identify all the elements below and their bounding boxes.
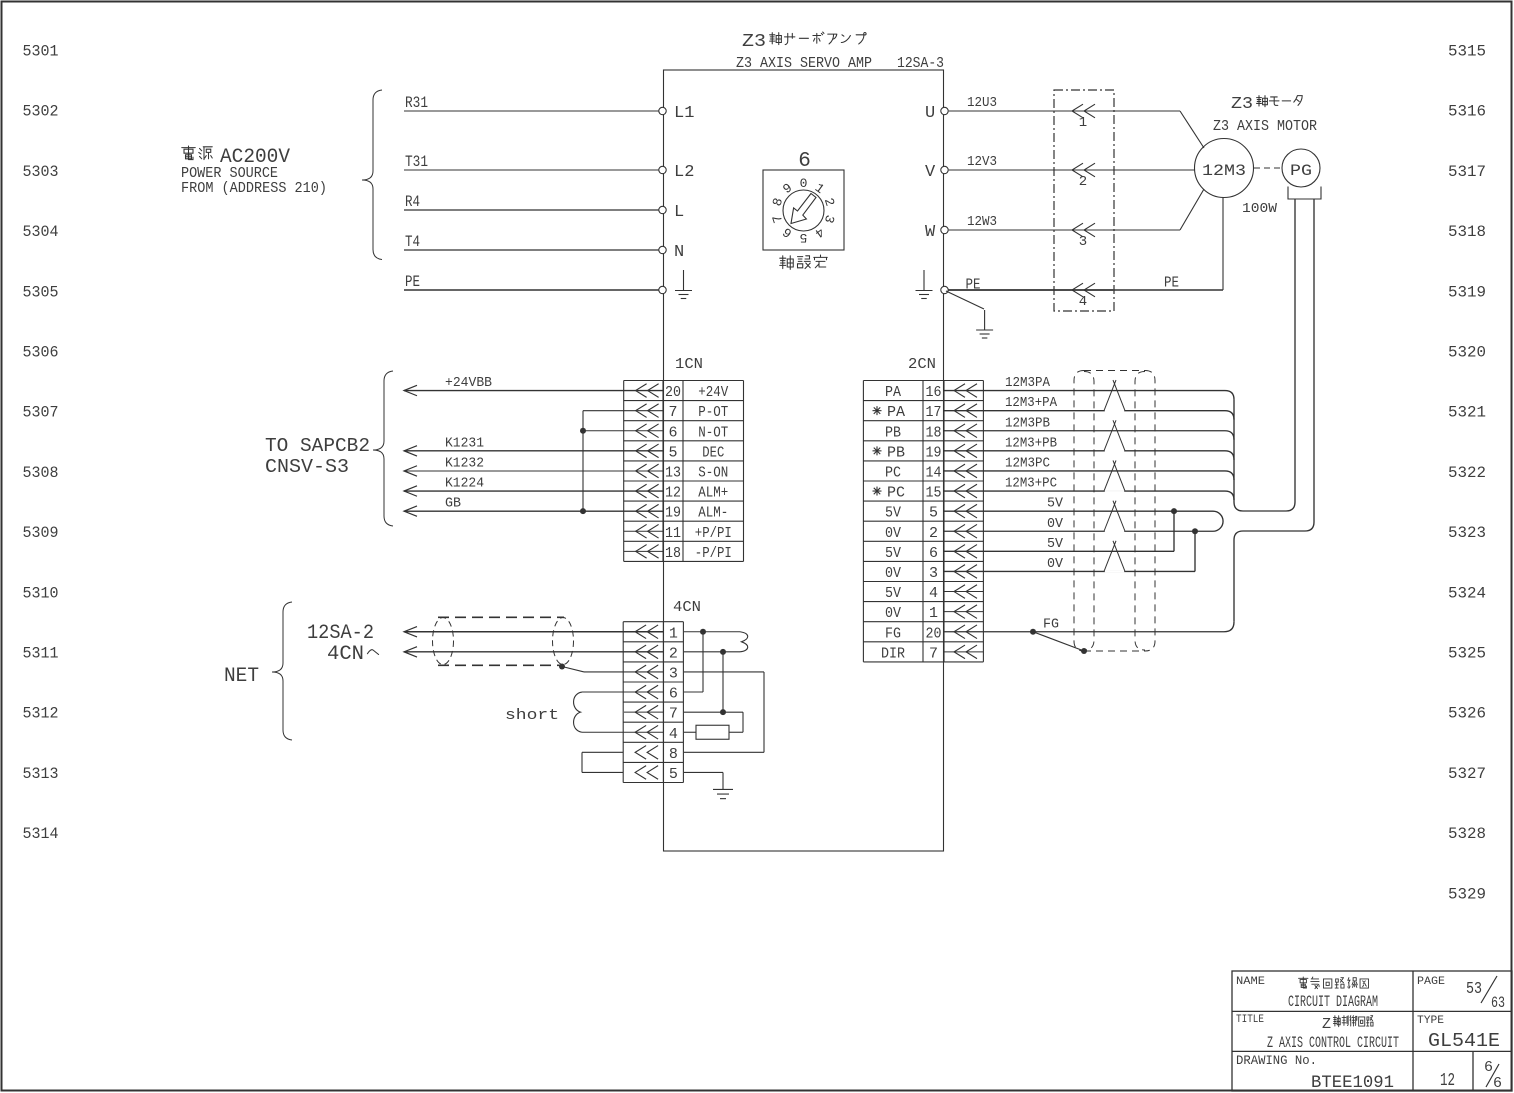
svg-text:2: 2	[929, 525, 938, 542]
svg-text:L: L	[674, 203, 684, 222]
svg-text:FG: FG	[885, 625, 901, 642]
svg-text:19: 19	[665, 505, 681, 522]
junction dot shield	[1081, 648, 1087, 654]
svg-text:6: 6	[668, 424, 677, 441]
svg-text:5309: 5309	[23, 524, 59, 542]
svg-text:5V: 5V	[1047, 496, 1064, 512]
wire GB	[404, 510, 663, 512]
svg-text:5317: 5317	[1448, 163, 1486, 181]
2CN pin 6 5V arrows	[954, 545, 965, 559]
wire K1231	[404, 450, 663, 452]
svg-text:L2: L2	[674, 163, 694, 182]
svg-text:5316: 5316	[1448, 103, 1486, 121]
tie pin1-pin6	[702, 632, 704, 692]
1CN pin 13 S-ON arrows	[636, 464, 647, 478]
svg-text:5: 5	[800, 230, 808, 245]
svg-text:5325: 5325	[1448, 645, 1486, 663]
svg-text:6: 6	[929, 545, 938, 562]
wire 5V pin5	[944, 510, 1213, 512]
2CN pin 2 0V arrows	[954, 524, 965, 538]
svg-text:W: W	[925, 223, 936, 242]
svg-text:12U3: 12U3	[967, 95, 997, 111]
svg-text:20: 20	[926, 625, 942, 642]
wire pin6	[684, 691, 703, 693]
terminal R31 on amp	[659, 107, 666, 114]
svg-text:short: short	[505, 707, 559, 724]
rotary switch S1 axis-setting dial	[763, 170, 844, 250]
servo amp 12SA-3 outline	[664, 70, 944, 851]
NET cable shield	[438, 616, 564, 618]
svg-text:14: 14	[926, 464, 942, 481]
svg-text:5302: 5302	[23, 103, 59, 121]
svg-text:5326: 5326	[1448, 705, 1486, 723]
svg-text:Z3 AXIS SERVO AMP: Z3 AXIS SERVO AMP	[736, 55, 872, 72]
terminal T4 on amp	[659, 246, 666, 253]
2CN pin 17 *PA arrows	[954, 404, 965, 418]
svg-text:5319: 5319	[1448, 283, 1486, 301]
2CN pin 5 5V arrows	[954, 504, 965, 518]
wire pin5 to ground	[684, 771, 723, 773]
svg-text:PB: PB	[885, 424, 901, 441]
svg-text:TYPE: TYPE	[1417, 1015, 1444, 1027]
4CN pin 1 arrows	[635, 625, 646, 639]
power source label 電源 AC200V	[182, 146, 196, 160]
svg-text:R4: R4	[405, 193, 420, 211]
svg-text:5310: 5310	[23, 584, 59, 602]
connector pin 3 arrows	[1072, 223, 1083, 237]
ground 4CN pin5	[713, 788, 733, 790]
svg-text:1: 1	[929, 605, 938, 622]
svg-text:1CN: 1CN	[675, 356, 703, 373]
2CN pin 4 5V arrows	[954, 585, 965, 599]
1CN pin 5 DEC arrows	[636, 444, 647, 458]
pins8-5 left short	[582, 751, 623, 753]
svg-text:5306: 5306	[23, 344, 59, 362]
svg-text:12M3: 12M3	[1202, 162, 1246, 180]
short curl pins6-4	[574, 692, 582, 732]
svg-text:PC: PC	[885, 464, 901, 481]
svg-text:12V3: 12V3	[967, 154, 997, 170]
svg-text:12M3PA: 12M3PA	[1005, 375, 1051, 391]
svg-text:T4: T4	[405, 233, 420, 251]
svg-text:12M3+PC: 12M3+PC	[1005, 476, 1057, 492]
svg-text:11: 11	[665, 525, 681, 542]
svg-text:FROM (ADDRESS 210): FROM (ADDRESS 210)	[181, 180, 327, 197]
svg-text:GB: GB	[445, 496, 461, 512]
svg-text:+P/PI: +P/PI	[695, 525, 732, 542]
pair curl pins1-2	[740, 632, 748, 652]
wire P-OT loop	[583, 410, 663, 412]
svg-text:DIR: DIR	[881, 645, 905, 662]
motor connector (dash-dot box)	[1054, 90, 1114, 311]
twisted pair symbols	[1104, 380, 1116, 411]
svg-text:7: 7	[668, 404, 677, 421]
svg-text:PA: PA	[887, 404, 905, 421]
wire 0V pin2	[944, 530, 1213, 532]
1CN pin 19 ALM- arrows	[636, 504, 647, 518]
svg-text:Z3 AXIS MOTOR: Z3 AXIS MOTOR	[1213, 118, 1317, 135]
4CN pin 6 arrows	[635, 685, 646, 699]
svg-text:63: 63	[1491, 994, 1505, 1012]
svg-text:5312: 5312	[23, 705, 59, 723]
svg-text:+24VBB: +24VBB	[445, 375, 492, 391]
svg-text:3: 3	[1079, 234, 1087, 250]
4CN pin 4 arrows	[635, 725, 646, 739]
svg-text:L1: L1	[674, 104, 694, 123]
connector 1CN table	[623, 381, 625, 562]
wire 12M3+PB	[944, 450, 1225, 452]
terminal U on amp right	[941, 107, 948, 114]
svg-text:7: 7	[929, 645, 938, 662]
svg-text:Z AXIS CONTROL CIRCUIT: Z AXIS CONTROL CIRCUIT	[1267, 1034, 1399, 1052]
2CN pin 1 0V arrows	[954, 605, 965, 619]
svg-text:FG: FG	[1043, 616, 1059, 632]
svg-text:12M3PB: 12M3PB	[1005, 415, 1050, 431]
svg-text:4: 4	[1079, 294, 1087, 310]
wire PE to motor	[949, 289, 1114, 291]
svg-text:NET: NET	[224, 665, 259, 688]
shield to 4CN pin3	[559, 664, 565, 670]
svg-text:CIRCUIT DIAGRAM: CIRCUIT DIAGRAM	[1288, 993, 1378, 1011]
terminal PE on amp right	[941, 286, 948, 293]
svg-text:GL541E: GL541E	[1428, 1030, 1500, 1052]
svg-text:12SA-3: 12SA-3	[897, 55, 944, 72]
svg-text:6: 6	[1484, 1059, 1493, 1076]
svg-text:PB: PB	[887, 444, 905, 461]
svg-text:7: 7	[669, 706, 678, 723]
svg-text:5329: 5329	[1448, 885, 1486, 903]
svg-text:2CN: 2CN	[908, 356, 936, 373]
svg-text:K1224: K1224	[445, 476, 484, 492]
title block	[1232, 971, 1512, 1091]
svg-text:5307: 5307	[23, 404, 59, 422]
svg-text:0V: 0V	[885, 605, 901, 622]
svg-text:5: 5	[929, 505, 938, 522]
svg-text:N-OT: N-OT	[698, 424, 728, 441]
svg-text:4CN: 4CN	[327, 643, 364, 666]
4CN pin 8 arrows	[635, 746, 646, 760]
wire N-OT loop	[583, 430, 663, 432]
wire pin3 to pin8 loop	[684, 671, 764, 673]
wire PE (power input)	[404, 289, 660, 291]
svg-text:P-OT: P-OT	[698, 404, 728, 421]
NET brace	[272, 602, 292, 740]
svg-text:12: 12	[1440, 1071, 1455, 1091]
tie pin2-pin7	[722, 652, 724, 712]
motor 12M3	[1195, 139, 1254, 198]
4CN right-side: pin1/pin2 pair	[684, 631, 740, 633]
svg-text:ALM+: ALM+	[698, 485, 728, 502]
2CN pin 20 FG arrows	[954, 625, 965, 639]
wire 12M3PA	[944, 390, 1225, 392]
terminal R4 on amp	[659, 206, 666, 213]
svg-text:Z: Z	[1322, 1016, 1331, 1033]
tie vertical P-OT/N-OT/ALM-	[582, 411, 584, 512]
svg-text:Z3: Z3	[742, 32, 766, 52]
terminal W on amp right	[941, 226, 948, 233]
junction dot FG	[1030, 629, 1036, 635]
connector pin 4 arrows	[1072, 283, 1083, 297]
svg-text:PG: PG	[1290, 162, 1312, 180]
svg-text:1: 1	[669, 625, 678, 642]
svg-text:0V: 0V	[885, 525, 901, 542]
wire T4 (power input)	[404, 249, 660, 251]
4CN pin 7 arrows	[635, 705, 646, 719]
svg-text:19: 19	[926, 444, 942, 461]
svg-text:12: 12	[665, 485, 681, 502]
wire 12M3PB	[944, 430, 1225, 432]
svg-text:S-ON: S-ON	[698, 464, 728, 481]
wire NET A (4CN pin1)	[404, 631, 663, 633]
svg-text:5315: 5315	[1448, 43, 1486, 61]
svg-text:5318: 5318	[1448, 223, 1486, 241]
resistor R (4CN pins 7-4)	[684, 731, 696, 733]
svg-text:17: 17	[926, 404, 942, 421]
svg-text:53: 53	[1466, 980, 1482, 999]
ground at amp PE terminal (left)	[683, 270, 685, 291]
svg-text:4: 4	[929, 585, 938, 602]
svg-text:5324: 5324	[1448, 584, 1486, 602]
junction dot N-OT	[580, 428, 586, 434]
connector 2CN table	[862, 381, 864, 662]
svg-text:5304: 5304	[23, 223, 59, 241]
wire FG	[944, 631, 1224, 633]
svg-text:5305: 5305	[23, 283, 59, 301]
2CN pin 15 *PC arrows	[954, 484, 965, 498]
ground from PE terminal (external)	[946, 291, 984, 309]
svg-text:ALM-: ALM-	[698, 505, 728, 522]
junction dot 5V	[1171, 508, 1177, 514]
svg-text:CNSV-S3: CNSV-S3	[265, 456, 349, 478]
svg-text:12W3: 12W3	[967, 214, 997, 230]
svg-text:0V: 0V	[885, 565, 901, 582]
svg-text:PAGE: PAGE	[1417, 976, 1445, 988]
1CN pin 7 P-OT arrows	[636, 404, 647, 418]
svg-text:20: 20	[665, 384, 681, 401]
terminal T31 on amp	[659, 166, 666, 173]
wire T31 (power input)	[404, 169, 660, 171]
svg-text:5322: 5322	[1448, 464, 1486, 482]
wire 12M3+PC	[944, 490, 1225, 492]
svg-text:5327: 5327	[1448, 765, 1486, 783]
svg-text:12M3+PA: 12M3+PA	[1005, 395, 1058, 411]
4CN pin 3 arrows	[635, 665, 646, 679]
terminal V on amp right	[941, 166, 948, 173]
PG connector block	[1288, 187, 1321, 200]
1CN pin 12 ALM+ arrows	[636, 484, 647, 498]
2CN pin 18 PB arrows	[954, 424, 965, 438]
svg-text:3: 3	[669, 665, 678, 682]
svg-text:5: 5	[669, 766, 678, 783]
junction dot ALM-	[580, 508, 586, 514]
wire 12M3PC	[944, 470, 1225, 472]
svg-text:12SA-2: 12SA-2	[307, 622, 374, 645]
PG cable down left	[1294, 199, 1296, 502]
1CN pin 11 +P/PI arrows	[636, 524, 647, 538]
encoder cable bundle vertical	[1233, 400, 1235, 502]
terminal PE on amp	[659, 286, 666, 293]
svg-text:5V: 5V	[885, 505, 901, 522]
PG cable down right	[1313, 199, 1315, 522]
wire +24VBB	[404, 390, 663, 392]
svg-text:1: 1	[1079, 115, 1087, 131]
svg-text:100W: 100W	[1242, 201, 1278, 217]
wire 5V pin6	[944, 550, 1174, 552]
wire K1224	[404, 490, 663, 492]
svg-text:18: 18	[665, 545, 681, 562]
svg-text:4: 4	[669, 726, 678, 743]
svg-text:DRAWING No.: DRAWING No.	[1236, 1053, 1317, 1068]
tie 0V pins 2-3	[1194, 531, 1196, 571]
svg-text:5328: 5328	[1448, 825, 1486, 843]
2CN pin 16 PA arrows	[954, 384, 965, 398]
svg-text:PE: PE	[1164, 275, 1179, 292]
svg-text:2: 2	[1079, 174, 1087, 190]
svg-text:5323: 5323	[1448, 524, 1486, 542]
wire NET B (4CN pin2)	[404, 651, 663, 653]
svg-text:5320: 5320	[1448, 344, 1486, 362]
svg-text:T31: T31	[405, 153, 428, 171]
svg-text:16: 16	[926, 384, 942, 401]
svg-text:5V: 5V	[1047, 536, 1064, 552]
svg-text:5301: 5301	[23, 43, 59, 61]
dial arrow	[791, 194, 816, 224]
svg-text:6: 6	[1493, 1075, 1502, 1092]
5V/0V pair U-turn	[1213, 511, 1223, 531]
2CN pin 3 0V arrows	[954, 565, 965, 579]
svg-text:+24V: +24V	[698, 384, 728, 401]
2CN pin 19 *PB arrows	[954, 444, 965, 458]
brace TO SAPCB2	[373, 371, 393, 526]
svg-text:5: 5	[668, 444, 677, 461]
tie 5V pins 5-6	[1173, 511, 1175, 551]
svg-text:K1231: K1231	[445, 435, 484, 451]
1CN pin 20 +24V arrows	[636, 384, 647, 398]
svg-text:8: 8	[669, 746, 678, 763]
encoder cable shield	[1074, 371, 1084, 652]
4CN pin 5 arrows	[635, 766, 646, 780]
FG riser to PG cable shield	[1233, 540, 1235, 622]
power source brace	[362, 90, 382, 260]
wire 12M3+PA	[944, 410, 1225, 412]
svg-text:5308: 5308	[23, 464, 59, 482]
svg-text:DEC: DEC	[702, 444, 724, 461]
svg-text:6: 6	[669, 686, 678, 703]
svg-text:5313: 5313	[23, 765, 59, 783]
svg-text:13: 13	[665, 464, 681, 481]
svg-text:V: V	[925, 163, 936, 182]
svg-text:U: U	[925, 104, 935, 123]
label 軸設定	[780, 256, 794, 270]
stubs 2CN pins 4,1,DIR	[944, 591, 983, 593]
FG to shield diagonal	[1033, 632, 1084, 651]
wire 0V pin3	[944, 570, 1195, 572]
svg-text:18: 18	[926, 424, 942, 441]
connector pin 2 arrows	[1072, 163, 1083, 177]
svg-text:12M3PC: 12M3PC	[1005, 455, 1050, 471]
svg-text:15: 15	[926, 485, 942, 502]
bundle bottom run to PG cable	[1243, 510, 1286, 512]
svg-text:5V: 5V	[885, 585, 901, 602]
svg-text:NAME: NAME	[1236, 976, 1265, 988]
svg-text:5303: 5303	[23, 163, 59, 181]
svg-text:12M3+PB: 12M3+PB	[1005, 435, 1057, 451]
svg-text:0V: 0V	[1047, 516, 1064, 532]
svg-text:Z3: Z3	[1231, 95, 1253, 114]
wire K1232	[404, 470, 663, 472]
wire R4 (power input)	[404, 209, 660, 211]
2CN pin 7 DIR arrows	[954, 645, 965, 659]
ground inside amp near PE (right)	[923, 270, 925, 291]
junction dot 0V	[1192, 528, 1198, 534]
wire pin7	[684, 711, 743, 713]
svg-text:4CN: 4CN	[673, 599, 701, 616]
svg-text:R31: R31	[405, 94, 428, 112]
svg-text:2: 2	[669, 645, 678, 662]
svg-text:6: 6	[798, 150, 811, 173]
svg-text:TITLE: TITLE	[1236, 1014, 1264, 1026]
svg-text:5321: 5321	[1448, 404, 1486, 422]
4CN pin 2 arrows	[635, 645, 646, 659]
svg-text:TO SAPCB2: TO SAPCB2	[265, 435, 370, 457]
svg-text:BTEE1091: BTEE1091	[1311, 1073, 1394, 1093]
arrows on external 1CN wires	[404, 385, 417, 395]
svg-text:-P/PI: -P/PI	[695, 545, 732, 562]
encoder PG	[1254, 167, 1282, 169]
1CN pin 18 -P/PI arrows	[636, 545, 647, 559]
2CN pin 14 PC arrows	[954, 464, 965, 478]
connector 4CN table	[622, 622, 624, 783]
wire pin4 left	[582, 731, 663, 733]
motor leads	[1180, 111, 1204, 148]
svg-text:0V: 0V	[1047, 556, 1064, 572]
connector pin 1 arrows	[1072, 104, 1083, 118]
svg-text:5V: 5V	[885, 545, 901, 562]
svg-text:PE: PE	[405, 273, 420, 291]
svg-text:5314: 5314	[23, 825, 59, 843]
svg-text:3: 3	[929, 565, 938, 582]
wire R31 (power input)	[404, 110, 660, 112]
stubs +P/PI -P/PI	[624, 530, 663, 532]
svg-text:PA: PA	[885, 384, 901, 401]
svg-text:5311: 5311	[23, 645, 59, 663]
svg-text:PE: PE	[966, 277, 981, 294]
1CN pin 6 N-OT arrows	[636, 424, 647, 438]
svg-text:0: 0	[800, 176, 808, 191]
svg-text:N: N	[674, 243, 684, 262]
svg-text:K1232: K1232	[445, 455, 484, 471]
svg-text:PC: PC	[887, 485, 905, 502]
